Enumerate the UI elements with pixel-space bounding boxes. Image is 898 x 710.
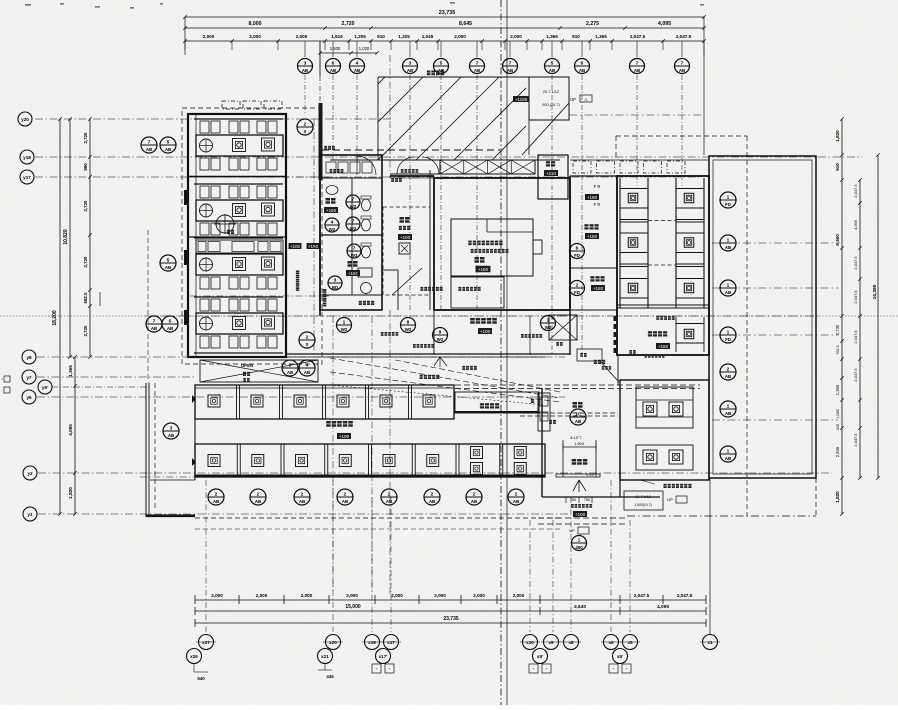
- svg-text:2,000: 2,000: [301, 593, 313, 598]
- svg-text:682.5: 682.5: [83, 292, 88, 304]
- svg-text:8-10°7: 8-10°7: [570, 436, 581, 440]
- svg-text:x18: x18: [368, 640, 376, 645]
- svg-text:1,365: 1,365: [68, 365, 73, 377]
- svg-text:W2: W2: [341, 327, 348, 332]
- svg-text:AB: AB: [679, 68, 685, 73]
- svg-text:23,735: 23,735: [443, 616, 459, 622]
- svg-text:2: 2: [515, 491, 518, 497]
- svg-text:2,047.5: 2,047.5: [853, 368, 858, 382]
- svg-text:AB: AB: [513, 499, 519, 504]
- svg-text:990: 990: [83, 163, 88, 171]
- svg-text:x21: x21: [321, 654, 329, 659]
- svg-text:7: 7: [353, 245, 356, 251]
- svg-text:2,047.5: 2,047.5: [853, 256, 858, 270]
- svg-text:2,720: 2,720: [83, 132, 88, 144]
- svg-text:y2: y2: [27, 471, 33, 476]
- svg-text:W3: W3: [351, 253, 358, 258]
- svg-text:AB: AB: [165, 265, 171, 270]
- svg-text:7: 7: [148, 139, 151, 145]
- svg-text:2,047.5: 2,047.5: [853, 433, 858, 447]
- svg-text:2,000: 2,000: [346, 593, 358, 598]
- svg-text:2: 2: [576, 282, 579, 288]
- svg-text:4,095: 4,095: [853, 219, 858, 230]
- svg-text:AB: AB: [151, 326, 157, 331]
- svg-text:x5: x5: [627, 640, 633, 645]
- svg-text:AB: AB: [167, 326, 173, 331]
- svg-text:AB: AB: [287, 370, 293, 375]
- svg-text:FD: FD: [725, 337, 731, 342]
- svg-text:y8: y8: [26, 355, 32, 360]
- svg-text:750: 750: [570, 498, 576, 502]
- svg-text:AB: AB: [549, 68, 555, 73]
- svg-text:7: 7: [352, 218, 355, 224]
- svg-text:AB: AB: [725, 456, 731, 461]
- svg-text:AB: AB: [168, 433, 174, 438]
- svg-text:1: 1: [343, 319, 346, 325]
- svg-text:AB: AB: [575, 419, 581, 424]
- svg-text:UP: UP: [667, 497, 673, 502]
- svg-text:OPEN: OPEN: [241, 363, 253, 368]
- svg-text:x17': x17': [379, 654, 388, 659]
- svg-text:7: 7: [636, 60, 639, 66]
- svg-text:F R: F R: [594, 202, 601, 207]
- svg-text:2,047.5: 2,047.5: [853, 290, 858, 304]
- svg-text:2,720: 2,720: [83, 200, 88, 212]
- svg-text:7: 7: [352, 196, 355, 202]
- svg-text:1,820: 1,820: [835, 130, 840, 142]
- svg-text:10-7 1/12: 10-7 1/12: [635, 495, 650, 499]
- svg-text:S: S: [304, 129, 307, 134]
- svg-text:x10: x10: [526, 640, 534, 645]
- svg-text:540: 540: [197, 676, 205, 681]
- svg-text:910: 910: [377, 34, 385, 39]
- svg-text:2: 2: [344, 491, 347, 497]
- svg-text:2: 2: [304, 121, 307, 127]
- svg-text:4: 4: [356, 60, 359, 66]
- svg-text:2,047.5: 2,047.5: [630, 34, 646, 39]
- svg-text:W2: W2: [437, 337, 444, 342]
- svg-text:AB: AB: [725, 411, 731, 416]
- svg-text:1,365: 1,365: [546, 34, 558, 39]
- svg-text:5: 5: [167, 257, 170, 263]
- svg-text:x5': x5': [617, 654, 623, 659]
- svg-text:445: 445: [326, 674, 334, 679]
- svg-text:AB: AB: [725, 245, 731, 250]
- svg-text:10,820: 10,820: [63, 229, 69, 245]
- svg-text:y1: y1: [27, 512, 33, 517]
- svg-text:+100: +100: [575, 512, 586, 517]
- svg-text:2,000: 2,000: [510, 34, 522, 39]
- svg-text:2,000: 2,000: [454, 34, 466, 39]
- svg-text:UP: UP: [569, 529, 575, 533]
- svg-text:+100: +100: [339, 434, 350, 439]
- svg-text:3,640: 3,640: [574, 604, 586, 610]
- svg-text:AB: AB: [579, 68, 585, 73]
- svg-text:5: 5: [169, 318, 172, 324]
- svg-text:2,047.5: 2,047.5: [853, 184, 858, 198]
- svg-text:F R: F R: [594, 184, 601, 189]
- svg-text:2,275: 2,275: [586, 21, 599, 27]
- svg-text:AB: AB: [725, 290, 731, 295]
- svg-text:AB: AB: [299, 499, 305, 504]
- svg-text:1,365: 1,365: [835, 384, 840, 395]
- svg-text:20-7 1/12: 20-7 1/12: [543, 90, 559, 94]
- svg-text:1,615: 1,615: [331, 34, 343, 39]
- svg-text:4: 4: [306, 362, 309, 368]
- svg-text:7: 7: [476, 60, 479, 66]
- svg-text:1,820: 1,820: [68, 487, 73, 499]
- svg-text:BD: BD: [332, 285, 338, 290]
- svg-text:FD: FD: [574, 290, 580, 295]
- svg-text:1C: 1C: [575, 411, 582, 417]
- svg-text:2,047.5: 2,047.5: [853, 330, 858, 344]
- svg-text:AB: AB: [354, 68, 360, 73]
- svg-text:2: 2: [473, 491, 476, 497]
- svg-text:1: 1: [727, 194, 730, 200]
- svg-text:910: 910: [835, 163, 840, 171]
- svg-text:2,000: 2,000: [391, 593, 403, 598]
- svg-text:910: 910: [572, 34, 580, 39]
- svg-text:750: 750: [584, 498, 590, 502]
- svg-text:2,047.5: 2,047.5: [677, 593, 693, 598]
- svg-text:7: 7: [153, 318, 156, 324]
- svg-text:AB: AB: [725, 374, 731, 379]
- svg-text:8: 8: [407, 319, 410, 325]
- svg-text:23,735: 23,735: [439, 10, 456, 16]
- svg-text:2: 2: [215, 491, 218, 497]
- svg-text:W2: W2: [350, 226, 357, 231]
- svg-text:1,325: 1,325: [398, 34, 410, 39]
- svg-text:AB: AB: [634, 68, 640, 73]
- svg-text:x27: x27: [202, 640, 210, 645]
- svg-text:AB: AB: [330, 68, 336, 73]
- svg-text:2: 2: [301, 491, 304, 497]
- svg-text:900 (20-7): 900 (20-7): [542, 103, 560, 107]
- svg-text:1,500(10-7): 1,500(10-7): [634, 503, 652, 507]
- svg-text:+150: +150: [308, 244, 319, 249]
- svg-text:2,000: 2,000: [211, 593, 223, 598]
- svg-text:3: 3: [304, 60, 307, 66]
- svg-text:2,720: 2,720: [342, 21, 355, 27]
- svg-text:8,000: 8,000: [249, 21, 262, 27]
- svg-text:7: 7: [681, 60, 684, 66]
- svg-text:y6: y6: [26, 395, 32, 400]
- svg-text:1: 1: [727, 237, 730, 243]
- svg-text:AB: AB: [407, 68, 413, 73]
- svg-text:5: 5: [440, 60, 443, 66]
- svg-text:+110: +110: [546, 171, 556, 176]
- svg-text:W2: W2: [350, 204, 357, 209]
- svg-text:y7: y7: [26, 375, 32, 380]
- svg-text:3: 3: [170, 425, 173, 431]
- svg-text:x20: x20: [329, 640, 337, 645]
- svg-text:W2: W2: [329, 227, 336, 232]
- svg-text:+150: +150: [658, 344, 669, 349]
- svg-text:2,000: 2,000: [203, 34, 215, 39]
- svg-text:4,095: 4,095: [658, 21, 671, 27]
- svg-text:x6: x6: [608, 640, 614, 645]
- svg-text:AB: AB: [507, 68, 513, 73]
- svg-text:2,000: 2,000: [434, 593, 446, 598]
- svg-text:y18: y18: [23, 155, 31, 160]
- svg-text:W2: W2: [405, 327, 412, 332]
- svg-text:1: 1: [727, 403, 730, 409]
- svg-text:FD: FD: [725, 202, 731, 207]
- svg-text:1: 1: [727, 448, 730, 454]
- svg-text:+180: +180: [593, 286, 604, 291]
- svg-text:AB: AB: [342, 499, 348, 504]
- svg-text:18,200: 18,200: [52, 310, 58, 326]
- svg-text:6: 6: [581, 60, 584, 66]
- svg-text:AB: AB: [386, 499, 392, 504]
- svg-text:1,020: 1,020: [359, 46, 370, 51]
- svg-text:x8: x8: [568, 640, 574, 645]
- svg-text:1,365: 1,365: [595, 34, 607, 39]
- svg-text:2,720: 2,720: [83, 325, 88, 337]
- svg-text:UP: UP: [570, 97, 576, 102]
- svg-text:x26: x26: [190, 654, 198, 659]
- svg-text:8: 8: [439, 329, 442, 335]
- svg-text:3: 3: [409, 60, 412, 66]
- svg-text:4: 4: [331, 219, 334, 225]
- svg-text:2,720: 2,720: [83, 256, 88, 268]
- svg-text:AB: AB: [304, 370, 310, 375]
- svg-text:1,500: 1,500: [330, 46, 341, 51]
- svg-text:+180: +180: [587, 234, 598, 239]
- svg-text:AB: AB: [429, 499, 435, 504]
- svg-text:x1: x1: [707, 640, 713, 645]
- svg-text:W2: W2: [545, 325, 552, 330]
- svg-text:+180: +180: [478, 267, 489, 272]
- svg-text:x9: x9: [548, 640, 554, 645]
- svg-text:2,730: 2,730: [835, 324, 840, 335]
- svg-text:y17: y17: [23, 175, 31, 180]
- svg-text:2: 2: [727, 366, 730, 372]
- svg-text:+100: +100: [290, 244, 301, 249]
- svg-text:y20: y20: [21, 117, 29, 122]
- svg-text:3: 3: [334, 277, 337, 283]
- svg-text:1,205: 1,205: [354, 34, 366, 39]
- svg-text:2,000: 2,000: [513, 593, 525, 598]
- svg-text:AB: AB: [146, 147, 152, 152]
- svg-text:y6': y6': [42, 385, 48, 390]
- svg-text:+150: +150: [326, 208, 337, 213]
- svg-text:x9': x9': [537, 654, 543, 659]
- svg-text:AB: AB: [474, 68, 480, 73]
- svg-text:5: 5: [167, 139, 170, 145]
- svg-text:4,095: 4,095: [68, 424, 73, 436]
- svg-text:1,065: 1,065: [836, 409, 840, 419]
- svg-text:2,000: 2,000: [249, 34, 261, 39]
- svg-text:2: 2: [306, 334, 309, 340]
- svg-text:1,820: 1,820: [835, 491, 840, 503]
- svg-text:450: 450: [575, 545, 583, 550]
- svg-text:x17: x17: [387, 640, 395, 645]
- svg-text:2,047.5: 2,047.5: [676, 34, 692, 39]
- svg-text:345: 345: [836, 424, 840, 430]
- svg-text:16,380: 16,380: [872, 284, 878, 299]
- svg-text:2,845: 2,845: [835, 446, 840, 457]
- svg-text:4,095: 4,095: [657, 604, 669, 610]
- svg-text:1,500: 1,500: [574, 441, 585, 446]
- svg-text:7: 7: [509, 60, 512, 66]
- svg-text:15,000: 15,000: [345, 604, 361, 610]
- svg-text:762.5: 762.5: [836, 345, 840, 355]
- svg-text:5,460: 5,460: [835, 234, 840, 246]
- svg-text:2: 2: [257, 491, 260, 497]
- svg-text:AB: AB: [255, 499, 261, 504]
- svg-text:AB: AB: [213, 499, 219, 504]
- svg-text:5: 5: [551, 60, 554, 66]
- svg-text:+180: +180: [587, 195, 598, 200]
- svg-text:2: 2: [431, 491, 434, 497]
- svg-text:S: S: [306, 342, 309, 347]
- svg-text:2,000: 2,000: [256, 593, 268, 598]
- svg-text:1: 1: [578, 537, 581, 543]
- svg-text:1: 1: [727, 282, 730, 288]
- svg-text:FD: FD: [574, 253, 580, 258]
- svg-text:AB: AB: [165, 147, 171, 152]
- svg-text:1,045: 1,045: [422, 34, 434, 39]
- svg-text:AB: AB: [302, 68, 308, 73]
- svg-text:0-15: 0-15: [586, 473, 593, 477]
- svg-text:6: 6: [332, 60, 335, 66]
- svg-text:2: 2: [388, 491, 391, 497]
- svg-text:2,000: 2,000: [473, 593, 485, 598]
- svg-text:+100: +100: [400, 235, 411, 240]
- svg-text:AB: AB: [471, 499, 477, 504]
- svg-text:1: 1: [727, 329, 730, 335]
- svg-text:2,000: 2,000: [296, 34, 308, 39]
- svg-text:6: 6: [576, 245, 579, 251]
- svg-text:+100: +100: [480, 329, 491, 334]
- svg-text:2,047.5: 2,047.5: [634, 593, 650, 598]
- svg-text:+150: +150: [348, 271, 359, 276]
- svg-text:8,645: 8,645: [459, 21, 472, 27]
